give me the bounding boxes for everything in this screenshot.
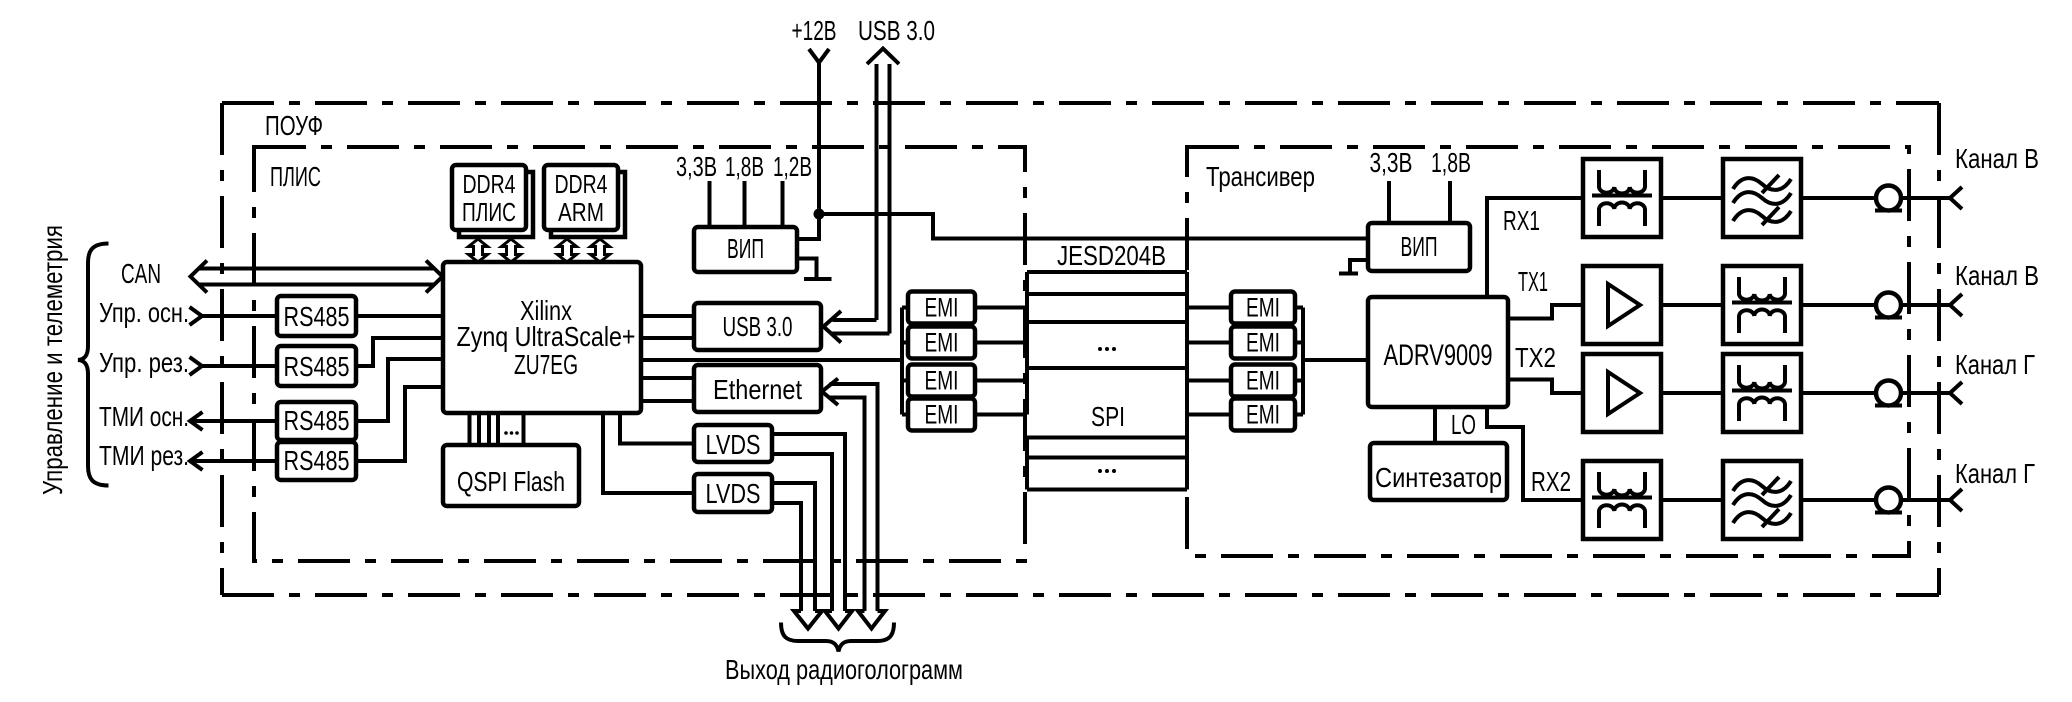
wire ТМИ рез. to RS485#4	[190, 459, 277, 463]
block EMI L4	[908, 399, 975, 431]
+12В input fork	[809, 49, 829, 63]
svg-text:EMI: EMI	[925, 400, 959, 430]
QSPI bus lines	[470, 413, 524, 445]
svg-text:EMI: EMI	[1246, 366, 1280, 396]
svg-text:RS485: RS485	[284, 445, 350, 476]
block EMI L3	[908, 365, 975, 397]
bottom arrow head 1	[794, 611, 822, 629]
memory bus arrow 1	[469, 239, 488, 262]
block Синтезатор	[1370, 443, 1507, 500]
svg-text:Выход радиоголограмм: Выход радиоголограмм	[725, 654, 963, 685]
svg-text:USB 3.0: USB 3.0	[858, 15, 935, 46]
filter RX2	[1723, 461, 1801, 539]
svg-text:ZU7EG: ZU7EG	[514, 349, 578, 380]
svg-text:EMI: EMI	[925, 328, 959, 358]
fork Канал Г (TX2)	[1950, 382, 1962, 404]
wire RS485#1 to Xilinx	[356, 314, 443, 318]
block RS485 #3	[277, 402, 356, 440]
block EMI R1	[1231, 292, 1295, 324]
svg-text:EMI: EMI	[1246, 293, 1280, 323]
wire TX2 connector to fork	[1901, 391, 1950, 395]
svg-text:TX2: TX2	[1515, 342, 1556, 373]
svg-text:DDR4: DDR4	[463, 169, 516, 199]
svg-text:EMI: EMI	[1246, 328, 1280, 358]
wire TX2 amp to transformer	[1661, 391, 1723, 395]
inner box Трансивер (dash-dot)	[1187, 147, 1909, 556]
svg-text:EMI: EMI	[925, 366, 959, 396]
svg-text:Упр. рез.: Упр. рез.	[99, 347, 189, 378]
CAN bidirectional hollow arrow	[199, 269, 434, 285]
svg-text:ВИП: ВИП	[1401, 231, 1438, 262]
dots between QSPI bus lines	[504, 431, 508, 435]
fork Канал В (TX1)	[1950, 294, 1962, 316]
transformer TX1	[1723, 266, 1801, 344]
connector TX2	[1875, 381, 1902, 406]
wire RX1 filter to connector	[1801, 196, 1876, 200]
amplifier TX1	[1583, 266, 1661, 344]
memory bus arrow 2	[502, 239, 521, 262]
svg-text:ТМИ рез.: ТМИ рез.	[99, 440, 189, 471]
wire TX1 transformer to connector	[1801, 303, 1876, 307]
outer box ПОУФ (dash-dot) bottom edge	[222, 593, 1939, 597]
transformer RX2	[1583, 461, 1661, 539]
svg-text:ПОУФ: ПОУФ	[265, 110, 323, 141]
svg-text:Канал В: Канал В	[1955, 260, 2039, 291]
bottom arrow head 2	[825, 611, 852, 629]
input chevron Упр. осн.	[190, 307, 203, 325]
wires Xilinx to Ethernet	[641, 378, 694, 401]
amplifier TX2	[1583, 354, 1661, 432]
svg-text:RS485: RS485	[284, 351, 350, 382]
block Ethernet	[694, 365, 821, 412]
wire TX1 connector to fork	[1901, 303, 1950, 307]
wire Упр. осн. to RS485#1	[202, 314, 277, 318]
output chevron ТМИ осн.	[190, 412, 203, 430]
svg-text:JESD204B: JESD204B	[1057, 240, 1166, 271]
svg-text:Канал Г: Канал Г	[1955, 458, 2035, 489]
stubs from voltage labels to ВИП	[710, 181, 783, 227]
svg-text:USB 3.0: USB 3.0	[723, 311, 793, 342]
svg-text:Управление и телеметрия: Управление и телеметрия	[37, 225, 68, 495]
wire ТМИ осн. to RS485#3	[190, 419, 277, 423]
svg-text:ВИП: ВИП	[727, 233, 764, 264]
power line to transceiver ВИП	[819, 214, 1368, 239]
svg-text:Zynq UltraScale+: Zynq UltraScale+	[457, 321, 636, 352]
wire EMI bus to ADRV9009	[1303, 358, 1368, 362]
svg-text:Ethernet: Ethernet	[713, 374, 802, 405]
svg-text:EMI: EMI	[1246, 400, 1280, 430]
block EMI R4	[1231, 399, 1295, 431]
outer box ПОУФ left edge	[220, 103, 224, 595]
block EMI R2	[1231, 327, 1295, 359]
stubs voltage labels to ВИП right	[1389, 181, 1450, 223]
+12В feed line	[797, 63, 819, 240]
wire RS485#4 to Xilinx	[356, 387, 443, 461]
bottom arrow head 3	[858, 611, 885, 629]
ground symbol (right ВИП)	[1339, 260, 1368, 274]
right EMI stubs	[1187, 308, 1231, 415]
memory bus arrow 3	[558, 239, 577, 262]
svg-text:LO: LO	[1451, 409, 1476, 440]
shadow of DDR4 ARM	[551, 172, 625, 237]
svg-text:Канал В: Канал В	[1955, 143, 2039, 174]
fork Канал В (RX1)	[1950, 187, 1962, 209]
jog segments on Трансивер edge	[1185, 272, 1189, 490]
wire Xilinx to LVDS1	[620, 413, 694, 444]
svg-text:CAN: CAN	[121, 258, 161, 289]
block USB 3.0	[694, 303, 821, 350]
svg-text:RS485: RS485	[284, 405, 350, 436]
svg-text:+12В: +12В	[792, 15, 837, 46]
ground symbol (left ВИП)	[797, 259, 832, 280]
block RS485 #1	[277, 296, 356, 336]
bottom brace	[781, 623, 894, 652]
LVDS1 output wires to bottom arrow 2	[772, 434, 845, 611]
filter RX1	[1723, 159, 1801, 237]
wire RX2	[1487, 407, 1583, 500]
wire TX1	[1508, 305, 1583, 319]
wire Упр. рез. to RS485#2	[202, 364, 277, 368]
wire RX2 transformer to filter	[1661, 498, 1723, 502]
svg-text:TX1: TX1	[1518, 266, 1548, 297]
svg-text:SPI: SPI	[1091, 401, 1125, 432]
block LVDS 2	[694, 474, 772, 512]
connector RX1	[1875, 186, 1902, 211]
block EMI L1	[908, 292, 975, 324]
shadow of DDR4 ПЛИС	[459, 172, 533, 237]
USB 3.0 hollow arrow pipe	[867, 49, 899, 65]
svg-text:RS485: RS485	[284, 301, 350, 332]
block RS485 #4	[277, 442, 356, 480]
wire RX1	[1487, 198, 1583, 297]
svg-text:1,8В: 1,8В	[725, 151, 764, 182]
JESD204B bus lines	[1027, 272, 1187, 368]
svg-text:RX2: RX2	[1531, 466, 1571, 497]
outer box ПОУФ (dash-dot) top edge	[222, 101, 1939, 105]
wire RX2 connector to fork	[1901, 498, 1950, 502]
transformer RX1	[1583, 159, 1661, 237]
wires Xilinx to USB 3.0	[641, 316, 694, 338]
right EMI bus vertical	[1301, 308, 1305, 415]
fork Канал Г (RX2)	[1950, 489, 1962, 511]
svg-text:Трансивер: Трансивер	[1206, 161, 1315, 192]
connector TX1	[1875, 293, 1902, 318]
Ethernet hollow arrow pipe to bottom	[822, 379, 838, 406]
SPI bus lines	[1027, 438, 1187, 490]
block ВИП (right)	[1368, 223, 1470, 271]
svg-text:Канал Г: Канал Г	[1955, 349, 2035, 380]
inner box ПЛИС (dash-dot)	[254, 147, 1025, 561]
block LVDS 1	[694, 425, 772, 462]
input chevron Упр. рез.	[190, 357, 203, 375]
block DDR4 ARM	[544, 165, 618, 230]
left EMI stubs	[902, 308, 908, 415]
svg-text:ПЛИС: ПЛИС	[270, 161, 321, 192]
block Xilinx Zynq UltraScale+ ZU7EG	[443, 262, 641, 413]
wire TX1 amp to transformer	[1661, 303, 1723, 307]
wire TX2 transformer to connector	[1801, 391, 1876, 395]
LO line	[1433, 407, 1437, 443]
svg-text:3,3В: 3,3В	[676, 151, 717, 182]
svg-text:ARM: ARM	[558, 197, 604, 227]
svg-text:3,3В: 3,3В	[1370, 147, 1413, 178]
connector RX2	[1875, 488, 1902, 513]
block EMI L2	[908, 327, 975, 359]
svg-text:1,2В: 1,2В	[773, 151, 812, 182]
svg-text:DDR4: DDR4	[555, 169, 608, 199]
left brace	[78, 244, 109, 486]
dots in SPI group	[1098, 469, 1102, 473]
block ADRV9009	[1368, 297, 1508, 407]
block DDR4 ПЛИС	[452, 165, 526, 230]
transformer TX2	[1723, 354, 1801, 432]
block RS485 #2	[277, 346, 356, 386]
svg-text:ПЛИС: ПЛИС	[462, 197, 516, 227]
LVDS2 output wires to bottom arrow 1	[772, 483, 815, 611]
outer box ПОУФ right edge	[1937, 103, 1941, 595]
block QSPI Flash	[443, 445, 579, 506]
svg-text:LVDS: LVDS	[706, 478, 761, 509]
wire Xilinx to EMI bus	[641, 358, 902, 362]
svg-text:EMI: EMI	[925, 293, 959, 323]
junction dot	[814, 209, 825, 220]
wire RX2 filter to connector	[1801, 498, 1876, 502]
wire RX1 transformer to filter	[1661, 196, 1723, 200]
svg-text:Упр. осн.: Упр. осн.	[99, 297, 189, 328]
left EMI bus vertical	[900, 308, 904, 415]
svg-text:LVDS: LVDS	[706, 429, 761, 460]
output chevron ТМИ рез.	[190, 452, 203, 470]
block ВИП (left)	[694, 227, 797, 272]
wire Xilinx to LVDS2	[603, 413, 694, 493]
svg-text:QSPI Flash: QSPI Flash	[457, 466, 565, 497]
svg-text:Синтезатор: Синтезатор	[1375, 462, 1502, 493]
memory bus arrow 4	[591, 239, 610, 262]
block EMI R3	[1231, 365, 1295, 397]
wire RS485#2 to Xilinx	[356, 338, 443, 366]
svg-text:ADRV9009: ADRV9009	[1384, 339, 1493, 372]
svg-text:1,8В: 1,8В	[1431, 147, 1471, 178]
wire RX1 connector to fork	[1901, 196, 1950, 200]
wire RS485#3 to Xilinx	[356, 359, 443, 421]
jog segments on ПЛИС edge	[1025, 272, 1029, 490]
wire TX2	[1508, 380, 1583, 394]
dots in JESD group	[1098, 347, 1102, 351]
svg-text:RX1: RX1	[1503, 205, 1540, 236]
svg-text:ТМИ осн.: ТМИ осн.	[99, 401, 189, 432]
